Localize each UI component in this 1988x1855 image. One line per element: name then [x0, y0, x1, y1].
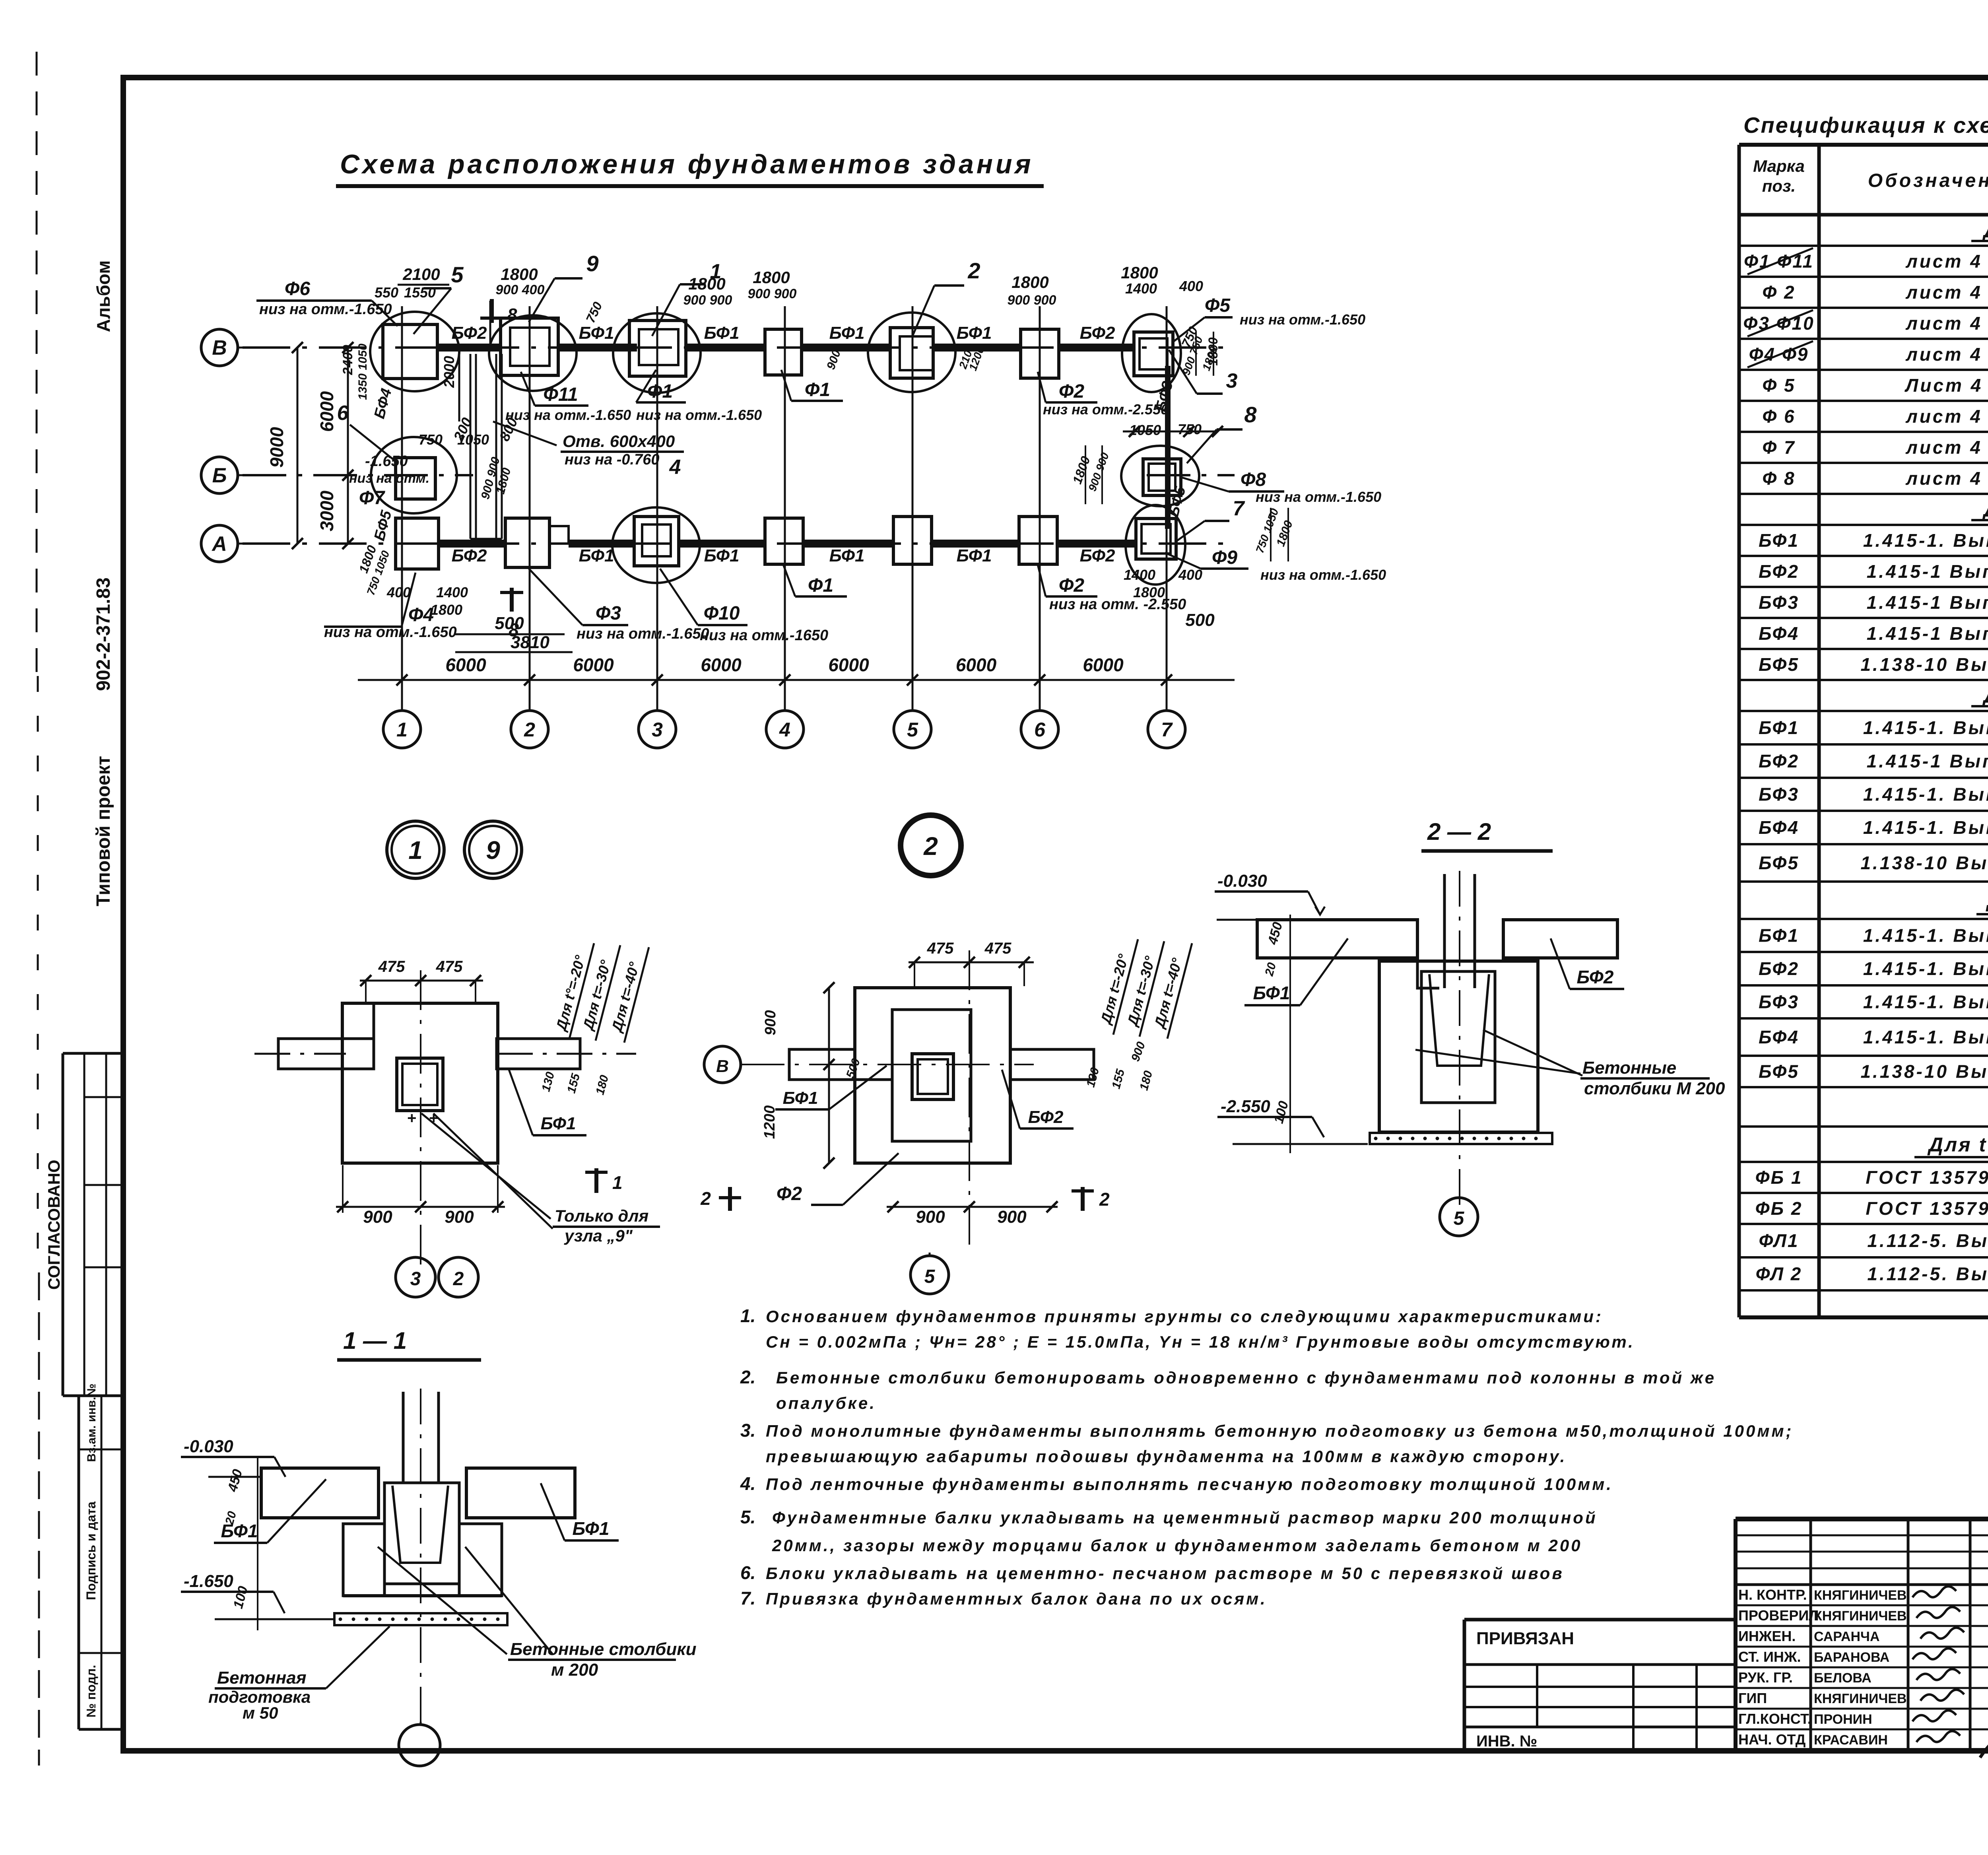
svg-text:БФ4: БФ4 — [1759, 817, 1799, 838]
svg-text:2400: 2400 — [340, 345, 355, 375]
svg-text:9: 9 — [486, 836, 500, 864]
svg-text:500: 500 — [495, 614, 524, 633]
svg-text:6000: 6000 — [573, 655, 614, 675]
svg-text:750: 750 — [583, 299, 605, 325]
svg-text:БФ1: БФ1 — [704, 546, 740, 565]
svg-text:Схема расположения фундамент: Схема расположения фундаментов здания — [340, 149, 1034, 179]
svg-text:ФЛ1: ФЛ1 — [1759, 1230, 1799, 1251]
svg-text:низ на отм.-1.650: низ на отм.-1.650 — [259, 301, 392, 318]
svg-text:1.415-1 Вып. 1: 1.415-1 Вып. 1 — [1867, 751, 1988, 771]
svg-text:900 900: 900 900 — [1086, 451, 1111, 493]
svg-text:6.: 6. — [740, 1562, 755, 1583]
svg-text:900: 900 — [762, 1010, 779, 1035]
svg-text:1.112-5. Вып.2: 1.112-5. Вып.2 — [1867, 1264, 1988, 1284]
svg-text:Бетонная: Бетонная — [217, 1668, 307, 1688]
svg-text:130: 130 — [539, 1070, 557, 1093]
svg-text:1.: 1. — [740, 1305, 755, 1326]
svg-text:ИНВ. №: ИНВ. № — [1476, 1733, 1537, 1750]
svg-text:ГОСТ 13579-78: ГОСТ 13579-78 — [1866, 1167, 1988, 1188]
svg-text:БФ1: БФ1 — [573, 1518, 610, 1539]
svg-text:БФ1: БФ1 — [829, 323, 865, 343]
svg-text:5: 5 — [924, 1266, 936, 1287]
svg-text:Ф 5: Ф 5 — [1762, 375, 1795, 396]
svg-text:1.415-1. Вып. 1: 1.415-1. Вып. 1 — [1863, 925, 1988, 946]
svg-text:6000: 6000 — [701, 655, 742, 675]
svg-text:3: 3 — [1226, 369, 1238, 392]
svg-text:180: 180 — [1137, 1069, 1155, 1092]
svg-text:Ф 2: Ф 2 — [1762, 282, 1795, 303]
svg-text:2: 2 — [700, 1188, 711, 1209]
svg-text:3: 3 — [410, 1268, 421, 1290]
svg-text:№ подл.: № подл. — [84, 1665, 98, 1718]
svg-text:Ф1: Ф1 — [808, 575, 833, 596]
svg-text:БФ1: БФ1 — [1253, 983, 1290, 1003]
svg-text:БФ2: БФ2 — [452, 546, 487, 565]
svg-text:6000: 6000 — [828, 655, 869, 675]
svg-text:КНЯГИНИЧЕВ: КНЯГИНИЧЕВ — [1814, 1608, 1907, 1624]
svg-text:КНЯГИНИЧЕВ: КНЯГИНИЧЕВ — [1814, 1691, 1907, 1706]
svg-text:Под ленточные фундаменты вы: Под ленточные фундаменты выполнять песча… — [766, 1475, 1613, 1494]
svg-text:Для t = -20°; -30°; -40°С: Для t = -20°; -30°; -40°С — [1927, 1134, 1988, 1156]
svg-text:Блоки укладывать на цементн: Блоки укладывать на цементно- песчаном р… — [766, 1564, 1564, 1583]
svg-text:1800: 1800 — [753, 268, 790, 287]
svg-text:Основанием фундаментов приня: Основанием фундаментов приняты грунты со… — [766, 1307, 1603, 1326]
svg-text:низ на отм.-1650: низ на отм.-1650 — [700, 627, 828, 644]
svg-text:БФ5: БФ5 — [1759, 853, 1799, 873]
svg-text:превышающую габариты подошвы: превышающую габариты подошвы фундамента … — [766, 1447, 1567, 1466]
svg-text:-1.650: -1.650 — [365, 453, 408, 470]
svg-text:Для t = -40°С: Для t = -40°С — [1986, 890, 1988, 912]
svg-text:Бетонные столбики бетонирова: Бетонные столбики бетонировать одновреме… — [776, 1368, 1716, 1387]
svg-text:БФ1: БФ1 — [829, 546, 865, 565]
svg-text:Только для: Только для — [555, 1206, 648, 1225]
svg-text:Обозначение: Обозначение — [1868, 170, 1988, 191]
svg-text:6000: 6000 — [316, 391, 337, 432]
svg-text:БФ3: БФ3 — [1759, 592, 1799, 613]
svg-text:лист 4: лист 4 — [1905, 313, 1982, 334]
svg-text:20мм., зазоры между торцами: 20мм., зазоры между торцами балок и фунд… — [772, 1536, 1582, 1555]
svg-text:900: 900 — [916, 1207, 945, 1227]
svg-text:Ф7: Ф7 — [359, 488, 385, 509]
svg-text:СОГЛАСОВАНО: СОГЛАСОВАНО — [45, 1160, 63, 1290]
svg-text:ИНЖЕН.: ИНЖЕН. — [1738, 1628, 1796, 1644]
svg-text:1800: 1800 — [501, 265, 538, 284]
svg-text:900: 900 — [445, 1207, 474, 1227]
svg-text:9: 9 — [586, 251, 598, 276]
svg-text:7: 7 — [1161, 719, 1173, 741]
svg-text:1: 1 — [408, 836, 423, 864]
svg-text:900: 900 — [1129, 1040, 1148, 1063]
svg-text:1.415-1. Вып. 1: 1.415-1. Вып. 1 — [1863, 784, 1988, 805]
svg-text:БФ1: БФ1 — [1759, 717, 1799, 738]
svg-text:4: 4 — [779, 719, 790, 741]
svg-text:155: 155 — [1109, 1067, 1127, 1090]
svg-text:ФБ 2: ФБ 2 — [1755, 1198, 1803, 1219]
svg-text:500: 500 — [844, 1057, 863, 1080]
svg-text:САРАНЧА: САРАНЧА — [1814, 1629, 1880, 1644]
svg-text:-1.650: -1.650 — [184, 1571, 233, 1591]
svg-text:1.415-1 Вып. 1: 1.415-1 Вып. 1 — [1867, 561, 1988, 582]
svg-text:5: 5 — [451, 262, 464, 287]
svg-text:лист 4: лист 4 — [1905, 251, 1982, 272]
svg-text:опалубке.: опалубке. — [776, 1394, 876, 1412]
svg-text:900 400: 900 400 — [496, 282, 545, 297]
svg-text:БФ3: БФ3 — [1759, 992, 1799, 1012]
svg-text:-0.030: -0.030 — [1217, 871, 1267, 891]
svg-text:БФ3: БФ3 — [1759, 784, 1799, 805]
svg-text:БФ4: БФ4 — [1759, 1027, 1799, 1047]
svg-text:м 50: м 50 — [243, 1703, 278, 1722]
svg-text:4.: 4. — [740, 1473, 755, 1494]
svg-text:Ф3: Ф3 — [596, 603, 621, 624]
svg-text:1800: 1800 — [431, 602, 462, 618]
svg-text:2: 2 — [923, 832, 938, 860]
svg-text:1800: 1800 — [1274, 519, 1295, 548]
svg-text:лист 4: лист 4 — [1905, 468, 1982, 489]
svg-text:БФ2: БФ2 — [1759, 751, 1799, 771]
svg-text:Ф 8: Ф 8 — [1762, 468, 1795, 489]
svg-text:-0.030: -0.030 — [184, 1437, 233, 1456]
svg-text:1.415-1. Вып. 1: 1.415-1. Вып. 1 — [1863, 530, 1988, 551]
svg-text:Сн = 0.002мПа ; Ψн= 28° ; Е: Сн = 0.002мПа ; Ψн= 28° ; Е = 15.0мПа, Υ… — [766, 1332, 1635, 1351]
svg-text:500: 500 — [1185, 610, 1215, 630]
svg-text:низ на отм. -2.550: низ на отм. -2.550 — [1049, 596, 1186, 613]
svg-text:6: 6 — [1034, 719, 1046, 741]
svg-text:Типовой проект: Типовой проект — [93, 756, 114, 906]
svg-text:РУК. ГР.: РУК. ГР. — [1738, 1669, 1793, 1686]
svg-text:1.415-1. Вып. 1: 1.415-1. Вып. 1 — [1863, 817, 1988, 838]
svg-text:В: В — [716, 1057, 729, 1076]
svg-text:Фундаментные балки укладыва: Фундаментные балки укладывать на цементн… — [772, 1508, 1598, 1527]
svg-text:900: 900 — [824, 348, 843, 371]
svg-text:+: + — [407, 1109, 416, 1127]
svg-text:БФ1: БФ1 — [957, 323, 992, 343]
svg-text:БФ1: БФ1 — [783, 1088, 818, 1108]
svg-text:1.415-1. Вып. 1: 1.415-1. Вып. 1 — [1863, 992, 1988, 1012]
svg-text:3810: 3810 — [511, 633, 549, 652]
svg-text:1.415-1 Вып. 1: 1.415-1 Вып. 1 — [1867, 623, 1988, 644]
svg-text:8: 8 — [507, 305, 517, 324]
svg-text:450: 450 — [1265, 921, 1285, 947]
svg-text:130: 130 — [1084, 1066, 1102, 1089]
svg-text:Ф9: Ф9 — [1212, 547, 1237, 568]
svg-text:БФ1: БФ1 — [1759, 925, 1799, 946]
svg-text:КНЯГИНИЧЕВ: КНЯГИНИЧЕВ — [1814, 1588, 1907, 1603]
svg-text:Для t = -30° С: Для t = -30° С — [1982, 685, 1988, 707]
svg-text:низ на отм.-1.650: низ на отм.-1.650 — [577, 625, 709, 642]
svg-text:750: 750 — [419, 431, 443, 448]
svg-text:1800: 1800 — [1121, 263, 1158, 282]
svg-text:ФЛ 2: ФЛ 2 — [1756, 1264, 1802, 1284]
svg-text:поз.: поз. — [1762, 177, 1796, 195]
svg-text:6: 6 — [337, 402, 349, 425]
svg-text:БАРАНОВА: БАРАНОВА — [1814, 1650, 1889, 1665]
svg-text:Ф4: Ф4 — [408, 604, 434, 625]
svg-text:1050: 1050 — [457, 431, 489, 448]
svg-text:6000: 6000 — [445, 655, 486, 675]
svg-text:Б: Б — [212, 464, 227, 487]
svg-text:180: 180 — [593, 1074, 611, 1096]
svg-text:ГИП: ГИП — [1738, 1690, 1767, 1706]
svg-text:1: 1 — [612, 1172, 623, 1193]
svg-text:100: 100 — [231, 1585, 251, 1610]
svg-text:475: 475 — [378, 958, 405, 975]
svg-text:5: 5 — [1454, 1208, 1465, 1229]
svg-text:СТ. ИНЖ.: СТ. ИНЖ. — [1738, 1649, 1801, 1665]
svg-text:ПРИВЯЗАН: ПРИВЯЗАН — [1476, 1629, 1574, 1648]
svg-text:2: 2 — [967, 258, 980, 283]
svg-text:БЕЛОВА: БЕЛОВА — [1814, 1670, 1872, 1686]
svg-text:2: 2 — [453, 1268, 464, 1290]
svg-text:1.415-1 Вып. 1: 1.415-1 Вып. 1 — [1867, 592, 1988, 613]
svg-text:ГЛ.КОНСТ.: ГЛ.КОНСТ. — [1738, 1711, 1811, 1727]
svg-text:5: 5 — [907, 719, 918, 741]
svg-text:750 1050: 750 1050 — [1254, 507, 1281, 555]
svg-text:20: 20 — [1262, 961, 1279, 978]
svg-text:Ф5: Ф5 — [1205, 295, 1231, 316]
svg-text:Ф2: Ф2 — [777, 1183, 802, 1204]
svg-text:2.: 2. — [740, 1367, 755, 1387]
svg-text:КРАСАВИН: КРАСАВИН — [1814, 1733, 1888, 1748]
svg-text:Ф1: Ф1 — [805, 379, 830, 400]
svg-text:900 900: 900 900 — [683, 293, 732, 308]
svg-text:-2.550: -2.550 — [1221, 1097, 1270, 1116]
svg-text:4: 4 — [669, 456, 681, 479]
svg-text:1: 1 — [396, 719, 408, 741]
svg-text:Ф2: Ф2 — [1059, 381, 1084, 402]
svg-text:1.415-1. Вып. 1: 1.415-1. Вып. 1 — [1863, 1027, 1988, 1047]
svg-text:Для t = -30° С: Для t = -30° С — [1982, 219, 1988, 242]
svg-text:400: 400 — [1179, 278, 1203, 294]
svg-text:БФ2: БФ2 — [1759, 561, 1799, 582]
svg-text:902-2-371.83: 902-2-371.83 — [93, 577, 114, 691]
svg-text:БФ3: БФ3 — [1152, 379, 1176, 413]
svg-text:900: 900 — [363, 1207, 392, 1227]
svg-text:3.: 3. — [740, 1420, 755, 1441]
svg-text:БФ2: БФ2 — [1080, 546, 1115, 565]
svg-text:1.138-10 Вып. 1: 1.138-10 Вып. 1 — [1860, 654, 1988, 675]
svg-text:ГОСТ 13579-78: ГОСТ 13579-78 — [1866, 1198, 1988, 1219]
svg-text:ПРОНИН: ПРОНИН — [1814, 1712, 1872, 1727]
svg-text:1400: 1400 — [436, 584, 468, 600]
svg-text:лист 4: лист 4 — [1905, 344, 1982, 365]
svg-text:6000: 6000 — [956, 655, 997, 675]
svg-text:900: 900 — [997, 1207, 1027, 1227]
svg-text:100: 100 — [1271, 1099, 1291, 1125]
svg-text:Ф8: Ф8 — [1241, 469, 1266, 490]
svg-text:БФ1: БФ1 — [221, 1521, 258, 1541]
svg-text:475: 475 — [927, 940, 954, 957]
svg-text:1.112-5. Вып.2: 1.112-5. Вып.2 — [1867, 1230, 1988, 1251]
svg-text:7.: 7. — [740, 1588, 755, 1608]
svg-text:1800: 1800 — [688, 274, 725, 293]
svg-text:БФ5: БФ5 — [1759, 654, 1799, 675]
svg-text:Ф 7: Ф 7 — [1762, 437, 1795, 458]
svg-text:ФБ 1: ФБ 1 — [1755, 1167, 1803, 1188]
svg-text:5.: 5. — [740, 1507, 755, 1527]
svg-text:1800: 1800 — [1133, 584, 1165, 600]
svg-text:1.138-10 Вып. 1: 1.138-10 Вып. 1 — [1860, 1061, 1988, 1082]
svg-text:900 900: 900 900 — [1008, 293, 1056, 308]
svg-text:БФ2: БФ2 — [452, 323, 487, 343]
svg-text:Марка: Марка — [1753, 157, 1805, 175]
svg-text:БФ2: БФ2 — [1577, 967, 1614, 987]
svg-text:475: 475 — [984, 940, 1011, 957]
svg-text:900 900: 900 900 — [748, 286, 797, 301]
svg-text:6000: 6000 — [1083, 655, 1124, 675]
svg-text:550: 550 — [375, 284, 398, 301]
svg-text:400: 400 — [1178, 567, 1202, 583]
svg-text:Привязка фундаментных балок: Привязка фундаментных балок дана по их о… — [766, 1589, 1267, 1608]
svg-text:низ на отм.-1.650: низ на отм.-1.650 — [636, 407, 762, 423]
svg-text:НАЧ. ОТД: НАЧ. ОТД — [1738, 1731, 1806, 1748]
svg-text:8: 8 — [1244, 402, 1257, 427]
svg-text:155: 155 — [565, 1072, 582, 1095]
svg-text:1800: 1800 — [1011, 273, 1048, 291]
svg-text:БФ4: БФ4 — [371, 387, 395, 420]
svg-text:Отв. 600х400: Отв. 600х400 — [563, 432, 675, 451]
svg-text:1350 1050: 1350 1050 — [356, 344, 369, 400]
svg-text:2100: 2100 — [402, 265, 440, 284]
svg-text:2 — 2: 2 — 2 — [1427, 818, 1491, 845]
svg-text:Бетонные столбики: Бетонные столбики — [510, 1639, 697, 1659]
svg-text:Под монолитные фундаменты в: Под монолитные фундаменты выполнять бето… — [766, 1422, 1794, 1440]
svg-text:БФ4: БФ4 — [1759, 623, 1799, 644]
svg-text:низ на отм.-1.650: низ на отм.-1.650 — [505, 407, 631, 423]
svg-text:2: 2 — [524, 719, 535, 741]
svg-text:БФ1: БФ1 — [1759, 530, 1799, 551]
svg-text:+: + — [429, 1109, 438, 1127]
svg-text:А: А — [211, 532, 227, 556]
svg-text:3000: 3000 — [316, 490, 337, 531]
svg-text:Подпись и дата: Подпись и дата — [84, 1501, 98, 1600]
svg-text:Ф6: Ф6 — [285, 278, 310, 299]
svg-text:БФ5: БФ5 — [371, 509, 395, 543]
svg-text:БФ5: БФ5 — [1759, 1061, 1799, 1082]
svg-text:7: 7 — [1233, 497, 1245, 520]
svg-text:Ф11: Ф11 — [543, 384, 578, 405]
svg-text:1550: 1550 — [404, 284, 436, 301]
svg-text:1400: 1400 — [1125, 280, 1157, 297]
svg-text:1 — 1: 1 — 1 — [343, 1327, 407, 1354]
svg-text:БФ1: БФ1 — [541, 1114, 576, 1133]
svg-text:БФ2: БФ2 — [1080, 323, 1115, 343]
svg-text:лист 4: лист 4 — [1905, 282, 1982, 303]
svg-text:столбики М 200: столбики М 200 — [1584, 1079, 1725, 1098]
svg-text:1.415-1. Вып. 1: 1.415-1. Вып. 1 — [1863, 717, 1988, 738]
svg-text:низ на -0.760: низ на -0.760 — [565, 451, 660, 468]
svg-text:м 200: м 200 — [551, 1660, 598, 1680]
svg-text:лист 4: лист 4 — [1905, 437, 1982, 458]
svg-text:Ф1: Ф1 — [647, 381, 673, 402]
svg-text:1.415-1. Вып. 1: 1.415-1. Вып. 1 — [1863, 958, 1988, 979]
svg-text:ПРОВЕРИЛ: ПРОВЕРИЛ — [1738, 1607, 1819, 1624]
svg-text:1050: 1050 — [1129, 422, 1161, 438]
svg-text:Бетонные: Бетонные — [1582, 1058, 1676, 1078]
svg-text:Ф2: Ф2 — [1059, 575, 1084, 596]
svg-text:В: В — [212, 336, 227, 359]
svg-text:1400: 1400 — [1124, 567, 1155, 583]
svg-text:2: 2 — [1099, 1189, 1110, 1210]
svg-text:БФ1: БФ1 — [704, 323, 740, 343]
svg-text:9000: 9000 — [266, 427, 287, 468]
svg-text:БФ2: БФ2 — [1028, 1107, 1064, 1127]
svg-text:низ на отм.: низ на отм. — [349, 471, 429, 486]
svg-text:низ на отм.-1.650: низ на отм.-1.650 — [1240, 311, 1365, 328]
svg-text:БФ1: БФ1 — [579, 323, 614, 343]
svg-text:400: 400 — [386, 584, 411, 600]
svg-text:низ на отм.-2.550: низ на отм.-2.550 — [1043, 401, 1169, 418]
svg-text:475: 475 — [436, 958, 463, 975]
svg-text:БФ1: БФ1 — [579, 546, 614, 565]
svg-text:БФ2: БФ2 — [1759, 958, 1799, 979]
svg-text:Альбом: Альбом — [93, 260, 114, 332]
svg-text:Спецификация к схеме располо: Спецификация к схеме расположения фундам… — [1743, 113, 1988, 138]
svg-text:450: 450 — [225, 1468, 245, 1494]
svg-text:узла „9": узла „9" — [564, 1226, 633, 1245]
svg-text:Ф10: Ф10 — [704, 603, 740, 624]
svg-text:Для t = -20° С: Для t = -20° С — [1982, 499, 1988, 521]
svg-text:Вз.ам. инв.№: Вз.ам. инв.№ — [85, 1383, 98, 1462]
svg-text:лист 4: лист 4 — [1905, 406, 1982, 427]
svg-text:Ф 6: Ф 6 — [1762, 406, 1795, 427]
svg-text:низ на отм.-1.650: низ на отм.-1.650 — [1260, 567, 1386, 583]
svg-text:Лист 4: Лист 4 — [1905, 375, 1983, 396]
svg-text:БФ1: БФ1 — [957, 546, 992, 565]
svg-text:3: 3 — [652, 719, 663, 741]
svg-text:1.138-10 Вып. 1: 1.138-10 Вып. 1 — [1860, 853, 1988, 873]
svg-text:Н. КОНТР.: Н. КОНТР. — [1738, 1587, 1807, 1603]
svg-text:2000: 2000 — [441, 356, 457, 388]
